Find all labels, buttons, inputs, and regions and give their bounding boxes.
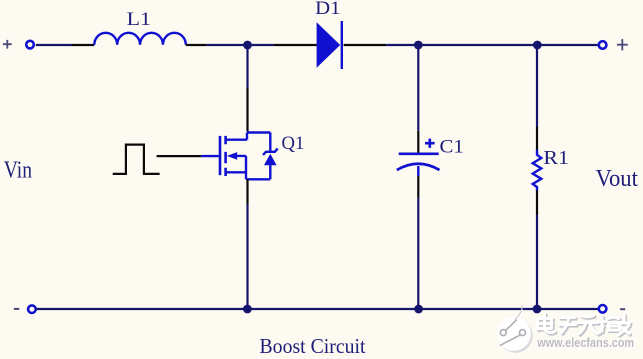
svg-text:Boost Circuit: Boost Circuit — [260, 334, 366, 358]
inductor L1 — [72, 33, 207, 45]
svg-text:D1: D1 — [315, 0, 340, 19]
wire from L1 to node A — [207, 44, 274, 46]
watermark url www.elecfans.com — [536, 336, 635, 351]
net label Vin — [4, 157, 32, 183]
output terminal (Vout +) — [599, 41, 607, 49]
wire node C down to R1 — [536, 45, 538, 127]
node D junction (Q1 source / bottom rail) — [243, 305, 252, 314]
svg-text:Vin: Vin — [4, 157, 32, 183]
plus mark at output terminal — [617, 39, 628, 50]
bottom rail wire — [36, 308, 599, 310]
watermark logo (elecfans) — [497, 304, 533, 353]
pulse waveform symbol at gate — [113, 145, 160, 174]
wire from input terminal to L1 — [36, 44, 72, 46]
wire Q1 source to bottom rail — [246, 204, 248, 309]
svg-text:Vout: Vout — [596, 165, 639, 192]
bottom-left terminal (Vin -) — [28, 305, 36, 313]
label C1 — [440, 136, 464, 157]
svg-text:Q1: Q1 — [282, 133, 305, 154]
net label Vout — [596, 165, 639, 192]
diode D1 — [273, 21, 386, 69]
label R1 — [543, 147, 569, 169]
node B junction (D1 / C1) — [414, 41, 423, 50]
minus mark at bottom-left terminal — [14, 308, 19, 310]
wire node A to Q1 drain — [246, 45, 248, 88]
label Q1 — [282, 133, 305, 154]
title Boost Circuit — [260, 334, 366, 358]
gate wire — [157, 155, 219, 157]
label D1 — [315, 0, 340, 19]
node A junction (L1 / D1 / Q1 drain) — [243, 41, 252, 50]
wire R1 to bottom rail — [536, 215, 538, 309]
svg-text:L1: L1 — [127, 9, 151, 30]
transistor Q1 (N-MOSFET with body diode) — [220, 88, 278, 204]
svg-text:R1: R1 — [543, 147, 569, 169]
node E junction (C1 / bottom rail) — [414, 305, 423, 314]
node F junction (R1 / bottom rail) — [533, 305, 542, 314]
minus mark at bottom-right terminal — [620, 308, 625, 310]
wire C1 to bottom rail — [417, 198, 419, 309]
plus mark at input terminal — [3, 40, 12, 49]
label L1 — [127, 9, 151, 30]
bottom-right terminal (Vout -) — [599, 305, 607, 313]
svg-text:www.elecfans.com: www.elecfans.com — [536, 336, 634, 350]
plus polarity mark of C1 — [425, 139, 435, 148]
capacitor C1 (polarized) — [397, 131, 440, 198]
svg-text:C1: C1 — [440, 136, 464, 157]
wire node B down to C1 — [417, 45, 419, 131]
input terminal (Vin +) — [26, 41, 34, 49]
node C junction (C1 / R1) — [533, 41, 542, 50]
resistor R1 — [533, 127, 542, 215]
watermark text 电子发烧友 (approximated strokes) — [538, 315, 631, 336]
wire from D1 to output terminal — [386, 44, 598, 46]
